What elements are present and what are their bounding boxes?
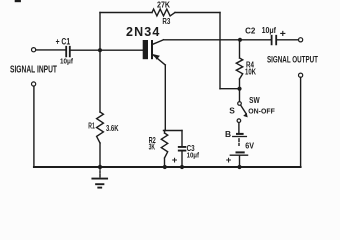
- wire top rail left segment: [100, 12, 152, 14]
- resistor R3: [152, 9, 175, 16]
- wire top rail right segment: [175, 12, 220, 14]
- svg-text:SIGNAL OUTPUT: SIGNAL OUTPUT: [267, 55, 318, 65]
- battery B cell1 long plate: [233, 136, 247, 138]
- capacitor C3 plates: [179, 147, 186, 151]
- transistor Q1 2N34 body bar: [143, 40, 148, 59]
- node C3 bottom: [180, 165, 184, 169]
- wire input to C1: [36, 49, 66, 51]
- svg-text:10μf: 10μf: [262, 25, 277, 35]
- wire C2 to output terminal: [277, 39, 298, 41]
- transistor Q1 inner electrode line: [151, 40, 153, 59]
- capacitor C1: [66, 47, 70, 57]
- svg-text:2N34: 2N34: [126, 25, 159, 39]
- capacitor C3 top lead: [181, 131, 183, 147]
- battery B inner dashes: [238, 139, 240, 146]
- svg-text:ON-OFF: ON-OFF: [248, 106, 275, 115]
- switch SW arm arrowhead: [243, 113, 248, 118]
- svg-text:10μf: 10μf: [60, 57, 73, 66]
- battery B cell2 short plate: [236, 151, 245, 153]
- wire emitter vertical: [164, 65, 166, 131]
- wire R1 bottom lead: [99, 143, 101, 167]
- terminal signal input top: [31, 48, 35, 52]
- wire left vertical (base bias): [99, 13, 101, 113]
- switch SW bottom contact: [237, 119, 241, 123]
- svg-text:B: B: [225, 129, 231, 139]
- svg-text:27K: 27K: [157, 1, 170, 10]
- svg-text:3K: 3K: [149, 142, 155, 152]
- svg-text:S: S: [229, 105, 235, 115]
- svg-text:10μf: 10μf: [187, 150, 200, 159]
- wire collector horizontal to C2 node: [164, 39, 271, 41]
- emitter arrowhead: [154, 54, 160, 60]
- wire right bypass vertical: [219, 13, 221, 89]
- terminal signal input bottom: [31, 82, 35, 86]
- svg-text:R1: R1: [88, 122, 95, 131]
- svg-text:+: +: [226, 155, 232, 166]
- ground symbol: [92, 178, 107, 180]
- svg-text:SIGNAL INPUT: SIGNAL INPUT: [10, 65, 58, 76]
- node R4 bottom / bypass junction: [237, 87, 241, 91]
- wire battery to ground rail: [239, 156, 241, 167]
- battery B cell1 short plate: [236, 133, 244, 135]
- wire R2/C3 top connector: [164, 130, 183, 132]
- wire bottom rail: [34, 166, 301, 168]
- stray scan mark top edge: [15, 0, 21, 2]
- wire emitter diagonal: [153, 55, 165, 65]
- svg-text:3.6K: 3.6K: [106, 124, 119, 133]
- node R2 bottom: [163, 165, 167, 169]
- node battery bottom: [237, 165, 241, 169]
- svg-text:R3: R3: [162, 17, 170, 26]
- resistor R2: [161, 131, 167, 168]
- svg-text:+ C1: + C1: [56, 36, 71, 46]
- svg-text:10K: 10K: [245, 68, 256, 77]
- wire bypass to switch junction: [220, 88, 240, 90]
- wire collector diagonal: [153, 40, 164, 44]
- resistor R1: [97, 112, 104, 143]
- wire input bottom to rail: [33, 86, 35, 167]
- battery B cell2 long plate: [230, 154, 247, 156]
- svg-text:+: +: [280, 29, 286, 40]
- svg-text:SW: SW: [249, 95, 260, 105]
- svg-text:6V: 6V: [245, 141, 254, 151]
- switch SW arm: [241, 105, 246, 113]
- resistor R4 with leads: [236, 40, 242, 102]
- wire output bottom to rail: [300, 77, 302, 167]
- wire C1 to base: [71, 49, 143, 51]
- node collector junction: [238, 38, 242, 42]
- svg-text:C2: C2: [245, 25, 255, 35]
- node base junction: [98, 48, 102, 52]
- capacitor C3 bottom lead: [181, 152, 183, 168]
- ground stub: [99, 167, 101, 178]
- node R1 bottom / ground tap: [98, 165, 102, 169]
- switch SW top contact: [238, 102, 242, 106]
- terminal signal output bottom: [299, 73, 303, 77]
- wire switch to battery: [238, 123, 240, 133]
- terminal signal output top: [299, 38, 303, 42]
- svg-text:+: +: [172, 155, 178, 166]
- capacitor C2: [272, 36, 277, 45]
